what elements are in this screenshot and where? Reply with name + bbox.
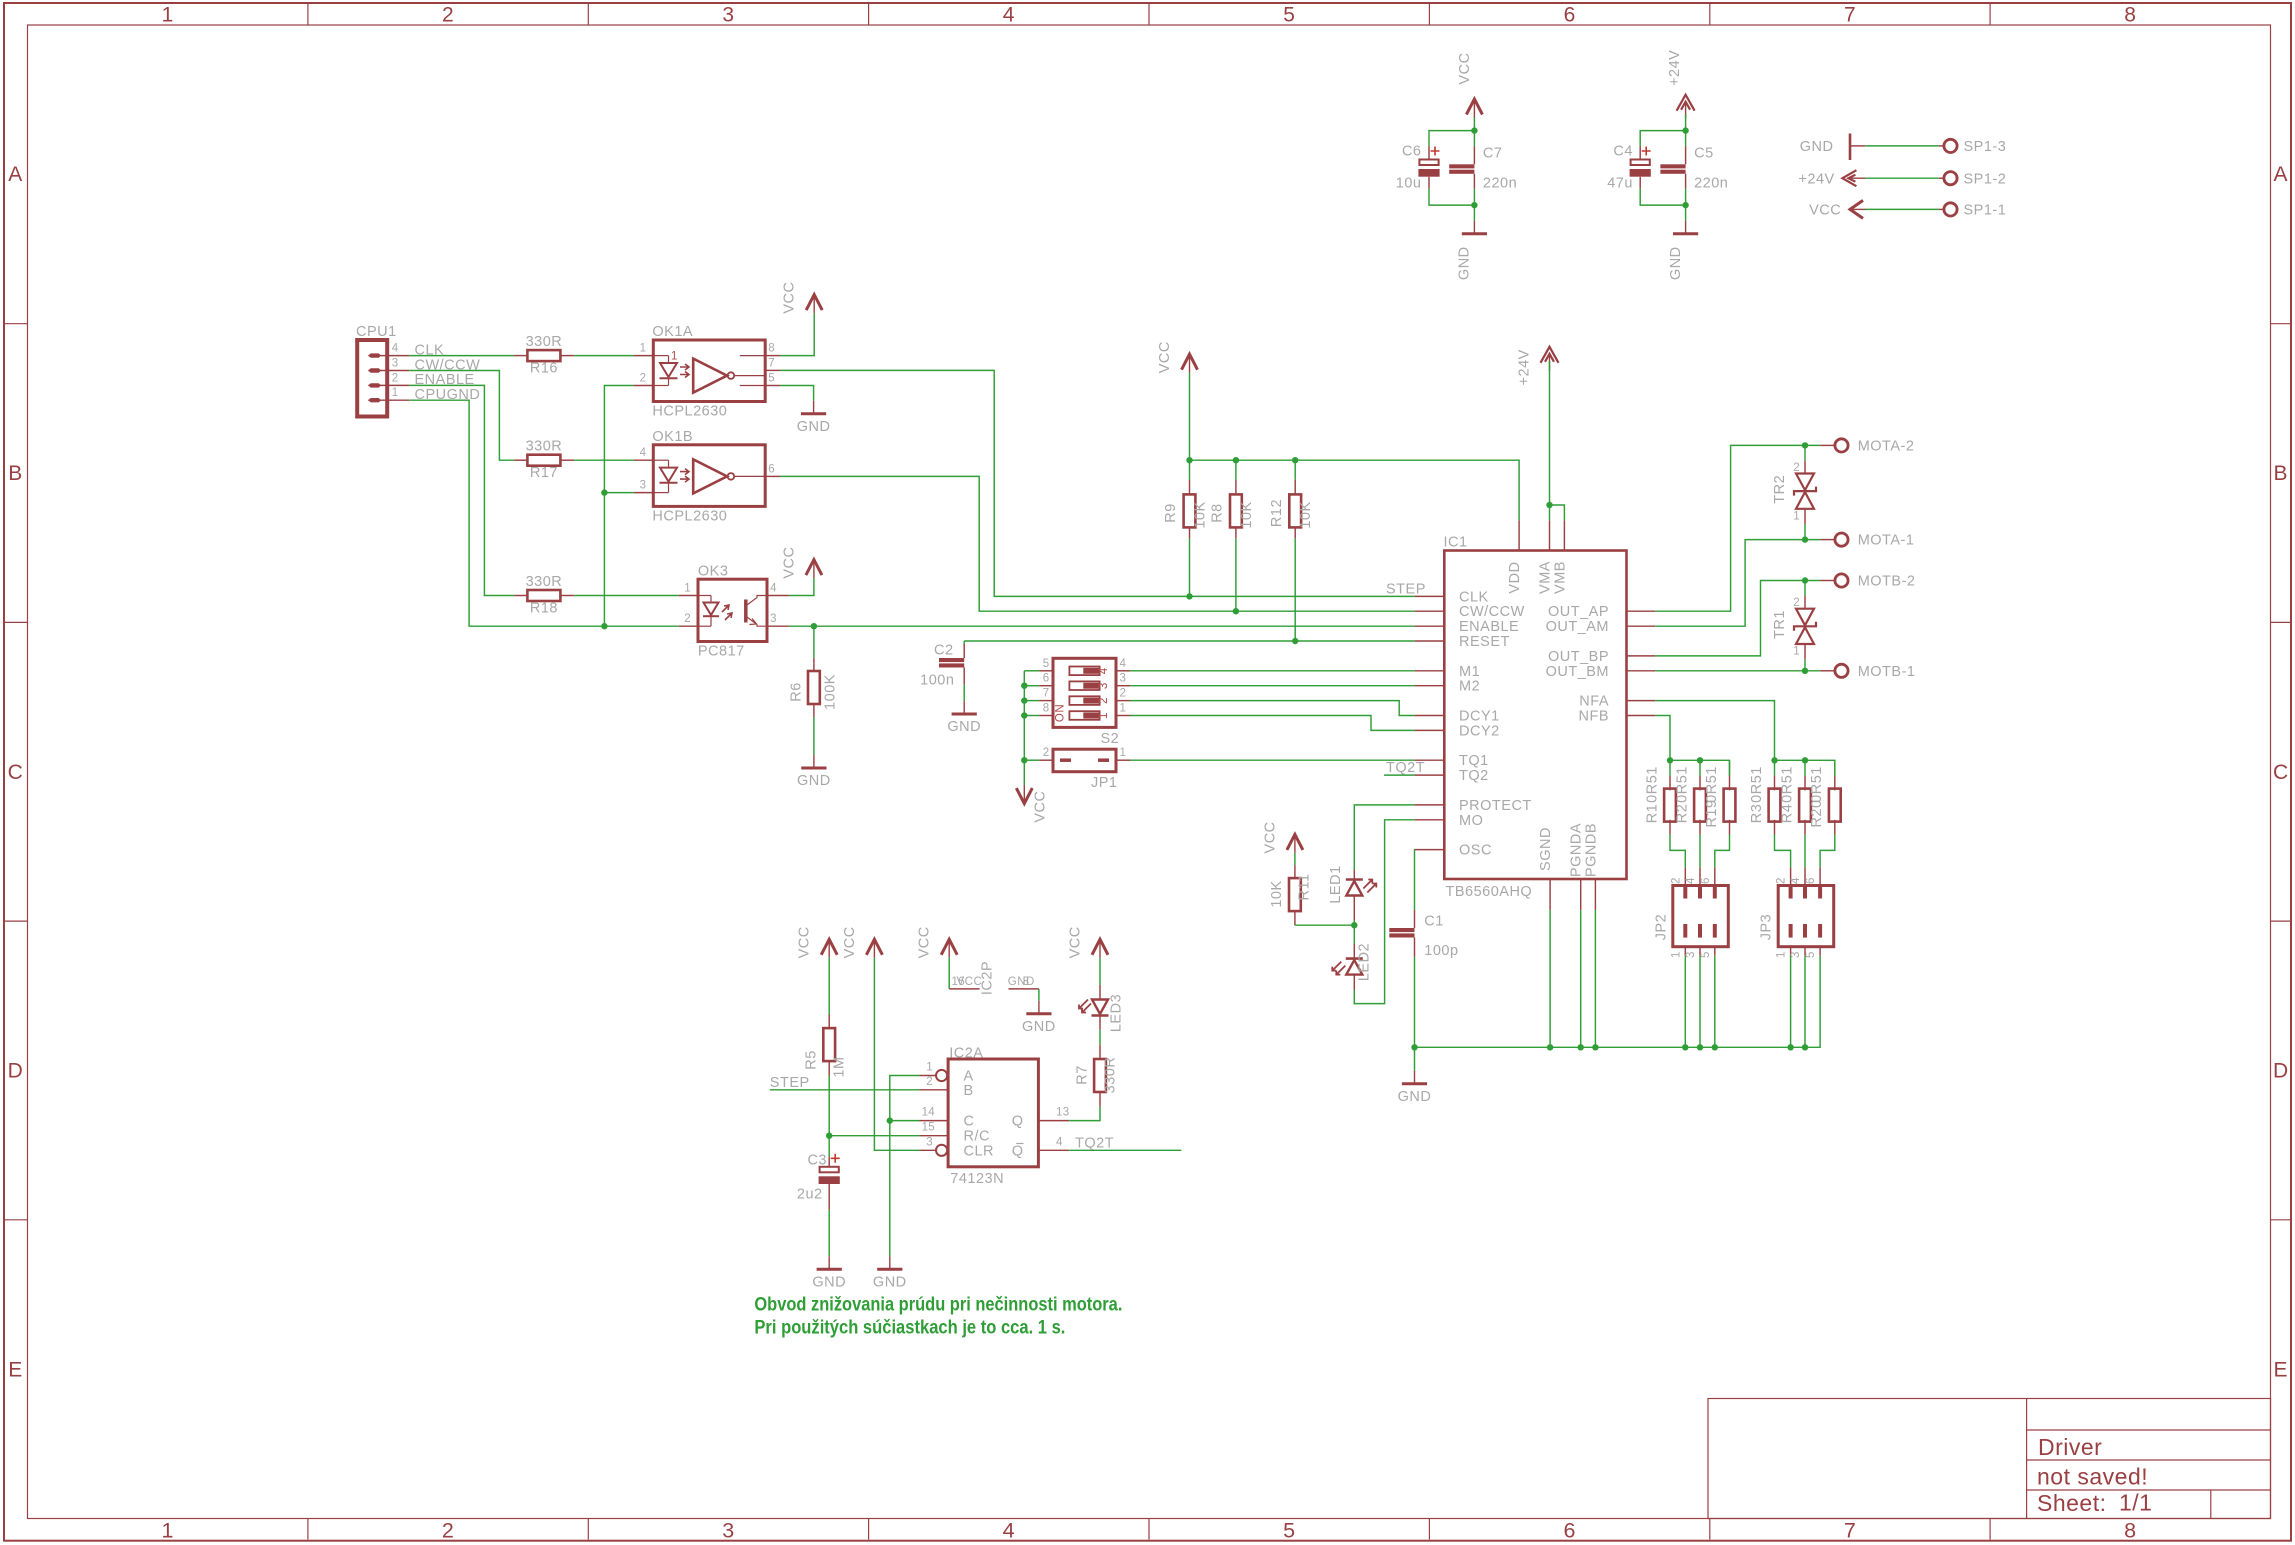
svg-text:GND: GND [812, 1274, 846, 1290]
svg-text:VCC: VCC [957, 976, 983, 988]
pad SP1-1 [1944, 203, 1957, 216]
svg-text:3: 3 [1790, 951, 1802, 958]
IC1 pin DCY2 [1415, 729, 1445, 731]
svg-text:HCPL2630: HCPL2630 [652, 404, 727, 420]
svg-text:4: 4 [640, 447, 647, 459]
svg-text:1/1: 1/1 [2119, 1490, 2152, 1516]
wire VCC to R5 [828, 958, 830, 1015]
wire NFA to R3 bus [1655, 701, 1774, 761]
junction +24V/C4/C5 [1682, 127, 1688, 133]
junction MOTA-1/TR2 [1802, 536, 1808, 542]
svg-text:5: 5 [768, 373, 775, 385]
JP1 pin 1 [1116, 759, 1130, 761]
svg-text:R17: R17 [530, 465, 558, 481]
junction PGNDB GND [1592, 1044, 1598, 1050]
wire IC2A A to C to GND [890, 1076, 920, 1121]
svg-text:TR1: TR1 [1772, 610, 1788, 639]
svg-text:LED3: LED3 [1109, 994, 1125, 1032]
svg-text:47u: 47u [1607, 176, 1633, 192]
svg-text:GND: GND [797, 419, 831, 435]
wire S2.1 to IC1 DCY2 [1130, 716, 1415, 731]
wire IC1 PROTECT to LED1 [1354, 805, 1414, 870]
wire JP1.1 to IC1 TQ1 [1130, 759, 1415, 761]
ground GND below R6 [813, 755, 815, 768]
junction JP1.2 [1021, 757, 1027, 763]
svg-text:+24V: +24V [1517, 349, 1533, 385]
svg-text:+24V: +24V [1798, 171, 1834, 187]
wire GND to SP1-3 [1850, 145, 1865, 147]
resistor R17 330R [514, 459, 527, 461]
svg-text:C: C [2273, 761, 2289, 784]
svg-text:TQ2T: TQ2T [1386, 760, 1425, 776]
wire OK3.3 junction to R6 [813, 626, 815, 658]
IC1 pin M1 [1415, 670, 1445, 672]
svg-text:3: 3 [640, 480, 647, 492]
svg-text:JP3: JP3 [1759, 914, 1775, 941]
wire R16 to OK1A.1 [574, 355, 634, 357]
svg-text:R2: R2 [1674, 804, 1690, 824]
junction JP2.5 GND [1712, 1044, 1718, 1050]
svg-text:2: 2 [1120, 688, 1127, 700]
svg-text:R8: R8 [1210, 503, 1226, 523]
net label TQ2T at IC1 [1384, 774, 1415, 776]
svg-text:C3: C3 [807, 1153, 827, 1169]
capacitor C4 47u [1639, 146, 1641, 159]
OK1A pin 2 [634, 385, 654, 387]
svg-text:6: 6 [1700, 877, 1712, 884]
svg-text:1: 1 [1120, 703, 1127, 715]
svg-text:10K: 10K [1239, 501, 1255, 528]
JP1 pin 2 [1039, 759, 1053, 761]
wire LED2 to IC1 MO [1354, 820, 1414, 1004]
supply symbol VCC above CLR trunk [866, 939, 882, 955]
svg-text:14: 14 [922, 1107, 936, 1119]
svg-text:MOTB-2: MOTB-2 [1858, 574, 1916, 590]
svg-text:NFA: NFA [1579, 694, 1609, 710]
svg-text:2: 2 [1098, 697, 1110, 704]
bus NFB R1-R2-R19 [1670, 760, 1730, 775]
wire SGND to GND bus [1549, 910, 1551, 1047]
diode LED3 [1099, 985, 1101, 1000]
supply symbol VCC above IC2P [941, 939, 957, 955]
resistor R4 0R51 [1804, 760, 1806, 775]
svg-text:8: 8 [1043, 703, 1050, 715]
svg-text:15: 15 [922, 1122, 935, 1134]
svg-text:330R: 330R [526, 574, 563, 590]
IC2P pin 16 VCC [949, 988, 979, 990]
junction S2.7 [1021, 697, 1027, 703]
svg-text:C1: C1 [1424, 914, 1444, 930]
supply symbol +24V (above C4/C5) [1677, 95, 1695, 111]
resistor R12 10K [1294, 460, 1296, 480]
junction R9 top [1186, 457, 1192, 463]
svg-text:10u: 10u [1396, 176, 1422, 192]
wire OK3.3 to IC1 ENABLE [789, 625, 1415, 627]
svg-text:74123N: 74123N [950, 1171, 1004, 1187]
svg-text:0R51: 0R51 [1809, 766, 1825, 803]
IC1 pin OUT_AM [1627, 625, 1656, 627]
svg-text:1M: 1M [832, 1056, 848, 1077]
wire OUT_BP to MOTB-2 [1655, 581, 1820, 656]
wire C2 to IC1 RESET [964, 640, 1414, 642]
svg-text:CW/CCW: CW/CCW [1459, 604, 1525, 620]
wire IC1 OSC to C1 [1414, 850, 1416, 911]
wire JP3.1 to GND bus [1790, 956, 1792, 1048]
junction JP3.3 GND [1802, 1044, 1808, 1050]
svg-text:C7: C7 [1483, 146, 1503, 162]
diode LED1 [1353, 870, 1355, 880]
svg-text:E: E [2274, 1359, 2289, 1382]
svg-text:3: 3 [1120, 673, 1127, 685]
svg-text:8: 8 [768, 343, 775, 355]
svg-text:3: 3 [392, 358, 399, 370]
wire C3 to GND [828, 1210, 830, 1256]
IC1 pin CW/CCW [1415, 610, 1445, 612]
svg-text:HCPL2630: HCPL2630 [652, 508, 727, 524]
wire CPU1.4 to R16 [409, 355, 514, 357]
svg-text:R16: R16 [530, 361, 558, 377]
junction VMA/VMB [1546, 502, 1552, 508]
IC1 pin TQ1 [1415, 759, 1445, 761]
svg-text:2u2: 2u2 [797, 1187, 823, 1203]
svg-text:STEP: STEP [770, 1075, 810, 1091]
pad MOTB-1 [1835, 664, 1848, 677]
resistor R9 10K [1189, 460, 1191, 480]
capacitor C6 10u [1428, 146, 1430, 159]
supply symbol VCC above OK3 [806, 560, 822, 576]
supply symbol VCC below S2/JP1 (down arrow) [1016, 788, 1032, 804]
junction LED1/LED2/R11 [1351, 922, 1357, 928]
svg-text:5: 5 [1283, 1519, 1295, 1543]
svg-text:OUT_BM: OUT_BM [1546, 664, 1609, 680]
svg-text:6: 6 [1043, 673, 1050, 685]
wire R9 to STEP net [1189, 538, 1191, 596]
junction MOTB-1/TR1 [1802, 668, 1808, 674]
svg-text:M2: M2 [1459, 679, 1480, 695]
junction VCC/C6/C7 [1471, 127, 1477, 133]
svg-text:330R: 330R [526, 334, 563, 350]
wire OUT_AP to MOTA-2 [1655, 445, 1820, 611]
OK3 pin 2 [679, 625, 698, 627]
IC2A pin 4 Q-bar [1038, 1149, 1069, 1151]
svg-text:3: 3 [722, 4, 734, 27]
svg-text:R/C: R/C [964, 1129, 990, 1145]
junction OK3.3 / R6 [811, 623, 817, 629]
svg-text:+24V: +24V [1667, 50, 1683, 86]
junction JP2.3 GND [1697, 1044, 1703, 1050]
junction C4/C5 GND [1682, 202, 1688, 208]
wire VCC to R11 [1294, 853, 1296, 865]
svg-text:GND: GND [1668, 246, 1684, 280]
IC1 pin VDD [1518, 520, 1520, 550]
svg-text:DCY2: DCY2 [1459, 723, 1500, 739]
svg-text:3: 3 [1685, 951, 1697, 958]
wire +24V to SP1-2 [1865, 177, 1939, 179]
svg-text:VCC: VCC [1068, 926, 1084, 958]
wire VCC to SP1-1 [1865, 208, 1939, 210]
svg-text:330R: 330R [526, 439, 563, 455]
OK3 pin 4 [767, 595, 789, 597]
junction OK1B.3 [601, 489, 607, 495]
wire R3 to JP3.2 [1775, 835, 1791, 868]
svg-text:7: 7 [1844, 4, 1856, 27]
IC2A pin 1 A (inverted) [936, 1070, 947, 1081]
svg-text:220n: 220n [1483, 176, 1517, 192]
svg-text:1: 1 [1776, 951, 1788, 958]
IC1 pin ENABLE [1415, 625, 1445, 627]
junction C1 GND bus [1411, 1044, 1417, 1050]
svg-text:1: 1 [671, 351, 678, 363]
IC1 pin SGND [1549, 879, 1551, 910]
OK1B internal LED [653, 459, 668, 461]
svg-text:7: 7 [768, 357, 775, 369]
wire S2.4 to IC1 M1 [1130, 670, 1415, 672]
ground GND below C5 [1685, 221, 1687, 234]
wire VCC to IC2P pin 16 [948, 958, 950, 989]
svg-text:1: 1 [1793, 511, 1800, 523]
connector JP3 [1778, 886, 1834, 947]
junction MOTA-2/TR2 [1802, 442, 1808, 448]
svg-text:PGNDB: PGNDB [1583, 823, 1599, 877]
wire OK1A.5 to GND [780, 386, 814, 401]
svg-text:1: 1 [162, 4, 174, 27]
svg-text:4: 4 [770, 583, 777, 595]
svg-text:2: 2 [1793, 462, 1800, 474]
svg-text:NFB: NFB [1579, 709, 1610, 725]
svg-text:MO: MO [1459, 813, 1483, 829]
wire NFB to R1 bus [1655, 716, 1670, 761]
wire LED3 to R7 [1099, 1030, 1101, 1045]
svg-text:TR2: TR2 [1772, 475, 1788, 504]
wire PGNDA to GND bus [1580, 910, 1582, 1047]
wire CPU1.2 to R18 [409, 385, 514, 595]
transil TR2 [1804, 445, 1806, 460]
svg-text:1: 1 [640, 343, 647, 355]
resistor R5 1M [828, 1015, 830, 1030]
svg-text:5: 5 [1283, 4, 1295, 27]
wire OK1A.7 to IC1 CLK (STEP net) [780, 370, 1415, 596]
IC2P pin 8 GND [1009, 988, 1039, 990]
OK1B internal buffer gate [693, 459, 727, 493]
svg-text:2: 2 [684, 613, 691, 625]
IC1 pin DCY1 [1415, 715, 1445, 717]
svg-text:VCC: VCC [1262, 821, 1278, 853]
ground GND below IC2P [1038, 1001, 1040, 1014]
svg-text:OSC: OSC [1459, 843, 1492, 859]
svg-text:R11: R11 [1297, 873, 1313, 900]
supply symbol +24V arrow (SP1-2) [1842, 170, 1856, 186]
svg-text:10K: 10K [1298, 501, 1314, 528]
svg-text:Pri použitých súčiastkach je t: Pri použitých súčiastkach je to cca. 1 s… [754, 1318, 1065, 1339]
S2 pin 5 [1039, 670, 1053, 672]
junction R9/STEP [1186, 593, 1192, 599]
svg-text:2: 2 [1043, 747, 1050, 759]
svg-text:M1: M1 [1459, 664, 1480, 680]
junction R12 top [1292, 457, 1298, 463]
IC1 pin VMA [1549, 520, 1551, 550]
junction R8/CWCCW [1233, 608, 1239, 614]
OK3 pin 1 [679, 595, 698, 597]
wire S2 left common trunk to VCC [1023, 671, 1025, 785]
svg-text:C4: C4 [1613, 144, 1633, 160]
resistor R3 0R51 [1774, 760, 1776, 775]
S2 pin 3 [1116, 685, 1130, 687]
svg-text:VCC: VCC [782, 282, 798, 314]
ground GND below C1 [1414, 1071, 1416, 1084]
svg-text:GND: GND [797, 773, 831, 789]
wire JP3.3 to GND bus [1804, 956, 1806, 1048]
svg-text:10K: 10K [1269, 880, 1285, 907]
svg-text:0R51: 0R51 [1644, 766, 1660, 803]
svg-text:Sheet:: Sheet: [2037, 1490, 2107, 1516]
svg-text:Q: Q [1012, 1143, 1024, 1159]
junction S2.6 [1021, 683, 1027, 689]
svg-text:TB6560AHQ: TB6560AHQ [1446, 884, 1533, 900]
svg-text:0R51: 0R51 [1674, 766, 1690, 803]
capacitor C2 100n [963, 641, 965, 644]
wire R18 to OK3.1 [574, 595, 679, 597]
supply symbol GND (T bar, SP1-3) [1849, 134, 1852, 161]
junction PGNDA GND [1578, 1044, 1584, 1050]
svg-text:2: 2 [1776, 877, 1788, 884]
svg-text:220n: 220n [1694, 176, 1728, 192]
svg-text:2: 2 [1793, 597, 1800, 609]
svg-text:not saved!: not saved! [2037, 1464, 2148, 1490]
svg-text:D: D [2273, 1060, 2289, 1083]
svg-text:SGND: SGND [1538, 827, 1554, 871]
junction S2.8 [1021, 712, 1027, 718]
IC1 pin MO [1415, 819, 1445, 821]
resistor R8 10K [1235, 460, 1237, 480]
svg-text:C6: C6 [1402, 144, 1422, 160]
svg-text:4: 4 [1685, 877, 1697, 884]
svg-text:PGNDA: PGNDA [1569, 823, 1585, 877]
note text line 1 [754, 1295, 1122, 1339]
wire C4/C5 to GND [1640, 189, 1685, 205]
svg-text:GND: GND [1457, 246, 1473, 280]
IC1 pin CLK [1415, 595, 1445, 597]
svg-text:A: A [2274, 163, 2289, 186]
capacitor C3 2u2 [828, 1136, 830, 1157]
svg-text:PROTECT: PROTECT [1459, 798, 1532, 814]
IC1 pin NFB [1627, 715, 1656, 717]
dip switch S2 [1053, 658, 1116, 727]
svg-text:OK1B: OK1B [652, 429, 693, 445]
svg-text:R18: R18 [530, 600, 558, 616]
resistor R6 100K [813, 658, 815, 670]
svg-text:B: B [8, 462, 23, 485]
OK1A internal LED [653, 355, 668, 357]
svg-text:CPU1: CPU1 [356, 324, 397, 340]
junction R5/C3/RC [826, 1133, 832, 1139]
capacitor C7 220n [1473, 146, 1475, 164]
svg-text:VCC: VCC [917, 926, 933, 958]
svg-text:MOTA-1: MOTA-1 [1858, 533, 1915, 549]
svg-text:SP1-3: SP1-3 [1964, 139, 2007, 155]
svg-text:3: 3 [1098, 682, 1110, 689]
wire junction to ground [889, 1121, 891, 1257]
svg-text:PC817: PC817 [698, 644, 745, 660]
wire JP2.3 to GND bus [1699, 956, 1701, 1048]
wire R12 to RESET net [1294, 538, 1296, 641]
OK3 pin 3 [767, 625, 789, 627]
IC1 pin OSC [1415, 849, 1445, 851]
svg-text:VCC: VCC [1809, 203, 1841, 219]
junction JP2.1 GND [1682, 1044, 1688, 1050]
svg-text:SP1-1: SP1-1 [1964, 203, 2007, 219]
svg-text:B: B [964, 1083, 974, 1099]
svg-text:OK1A: OK1A [652, 324, 693, 340]
svg-text:R6: R6 [789, 682, 805, 702]
svg-text:ON: ON [1055, 704, 1067, 722]
supply symbol VCC arrow (SP1-1) [1850, 200, 1863, 218]
wire to OK1B.3 [604, 492, 634, 494]
svg-text:VCC: VCC [1157, 341, 1173, 373]
svg-text:OUT_AM: OUT_AM [1546, 619, 1609, 635]
diode LED2 [1353, 925, 1355, 944]
OK1A pin 8 [765, 355, 780, 357]
IC1 pin OUT_BP [1627, 655, 1656, 657]
IC1 pin NFA [1627, 700, 1656, 702]
title block [1708, 1399, 2271, 1519]
svg-text:4: 4 [1790, 877, 1802, 884]
IC1 pin VMB [1563, 520, 1565, 550]
svg-text:GND: GND [947, 719, 981, 735]
supply symbol VCC (above C6/C7) [1466, 99, 1482, 115]
svg-text:4: 4 [392, 343, 399, 355]
junction A/C/GND [887, 1117, 893, 1123]
svg-text:OUT_AP: OUT_AP [1548, 604, 1609, 620]
junction C6/C7 GND [1471, 202, 1477, 208]
pad MOTA-2 [1835, 439, 1848, 452]
svg-text:VCC: VCC [1457, 52, 1473, 84]
connector JP2 [1673, 886, 1729, 947]
supply symbol VCC above OK1A [806, 295, 822, 311]
svg-text:OK3: OK3 [698, 563, 729, 579]
supply symbol +24V above IC1 [1541, 347, 1559, 363]
svg-text:R12: R12 [1269, 499, 1285, 527]
wire R5 to R/C junction [828, 1076, 830, 1136]
svg-text:C: C [964, 1114, 975, 1130]
svg-text:RESET: RESET [1459, 634, 1510, 650]
svg-text:R5: R5 [804, 1050, 820, 1070]
wire Q-bar TQ2T [1069, 1149, 1181, 1151]
svg-text:VCC: VCC [781, 547, 797, 579]
wire R20 to JP3.6 [1820, 835, 1835, 868]
resistor R1 0R51 [1669, 760, 1671, 775]
svg-text:JP1: JP1 [1091, 775, 1118, 791]
junction MOTB-2/TR1 [1802, 577, 1808, 583]
IC1 pin OUT_AP [1627, 610, 1656, 612]
wire CPU1.3 to R17 [409, 371, 514, 461]
svg-text:10K: 10K [1193, 501, 1209, 528]
IC2A pin 2 B [920, 1089, 949, 1091]
wire R2 to JP2.4 [1699, 835, 1701, 868]
IC2A pin 14 C [920, 1120, 949, 1122]
wire OK1B.6 to IC1 CW/CCW [780, 476, 1415, 611]
OK3 internal LED [698, 595, 711, 597]
svg-text:7: 7 [1043, 688, 1050, 700]
OK1B pin 6 [765, 475, 780, 477]
svg-text:6: 6 [768, 463, 775, 475]
svg-text:SP1-2: SP1-2 [1964, 171, 2007, 187]
resistor R11 10K [1294, 865, 1296, 879]
wire R19 to JP2.6 [1715, 835, 1730, 868]
resistor R20 0R51 [1834, 760, 1836, 775]
wire OK1A.2 down to OK1B.3 and CPUGND [604, 386, 633, 627]
IC1 pin M2 [1415, 685, 1445, 687]
ground GND below C7 [1473, 221, 1475, 234]
